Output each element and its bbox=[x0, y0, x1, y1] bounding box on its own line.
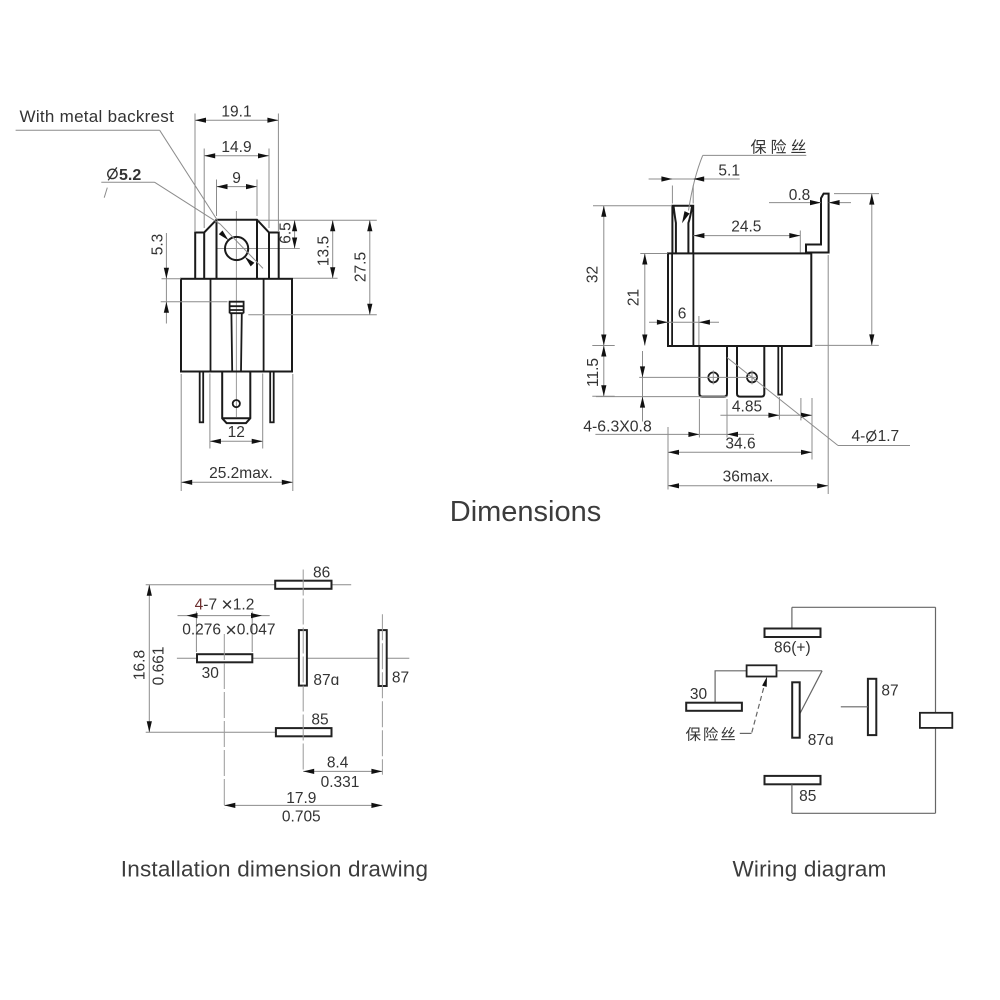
label 87a bbox=[313, 672, 339, 689]
svg-text:Wiring diagram: Wiring diagram bbox=[732, 857, 886, 882]
slot 86 bbox=[275, 581, 331, 589]
wire fuse to switch bbox=[777, 670, 823, 672]
dim 14.9 ext right bbox=[268, 149, 270, 229]
dim 6 text bbox=[678, 305, 687, 322]
svg-text:14.9: 14.9 bbox=[221, 139, 251, 156]
dim 36max line bbox=[668, 485, 828, 487]
body section line right bbox=[263, 279, 265, 372]
dim 34.6 text bbox=[725, 436, 755, 453]
label 4-dia1.7 bbox=[852, 428, 900, 445]
dim 4.85 ext b bbox=[800, 398, 802, 420]
dim 21 line bbox=[644, 254, 646, 346]
pin right view A bbox=[270, 372, 274, 423]
dim 34.6 ext left bbox=[667, 427, 669, 490]
dim 14.9 arrows bbox=[204, 153, 269, 158]
hole diameter arrow lower bbox=[245, 257, 255, 267]
wire bottom rail bbox=[792, 812, 936, 814]
dim 5.3 text bbox=[150, 234, 167, 256]
svg-text:0.8: 0.8 bbox=[789, 187, 811, 204]
metal bracket L-shape bbox=[806, 194, 829, 253]
svg-text:4-: 4- bbox=[852, 428, 866, 445]
dim 5.3 line bbox=[165, 233, 167, 324]
dim 21 text bbox=[626, 289, 643, 306]
fuse leader arrow bbox=[682, 211, 690, 223]
dim 16.8 arrows bbox=[147, 585, 152, 732]
dim 0.331 text bbox=[321, 774, 360, 791]
hole diameter pointer line bbox=[220, 224, 263, 268]
svg-text:30: 30 bbox=[202, 665, 220, 682]
dim 14.9 ext left bbox=[203, 149, 205, 229]
label 30 wiring bbox=[690, 686, 708, 703]
dim 34.6 arrows bbox=[668, 450, 812, 455]
dim 6.5 text bbox=[278, 222, 295, 244]
dim 0.661 text bbox=[151, 647, 168, 686]
dim 32 arrows bbox=[601, 206, 606, 346]
dim 4-6.3X0.8 ext left bbox=[698, 399, 700, 438]
dim 12 line bbox=[210, 440, 263, 442]
svg-text:Dimensions: Dimensions bbox=[450, 496, 602, 528]
dim 19.1 text bbox=[221, 104, 251, 121]
svg-text:0.705: 0.705 bbox=[282, 808, 321, 825]
hole diameter arrow upper bbox=[219, 231, 229, 241]
relay body outline B bbox=[668, 253, 811, 346]
dim overall right arrows bbox=[869, 194, 874, 346]
fuse leader line bbox=[689, 155, 703, 210]
dim 17.9 text bbox=[286, 790, 316, 807]
svg-text:0.331: 0.331 bbox=[321, 774, 360, 791]
svg-text:86: 86 bbox=[313, 565, 330, 582]
title Dimensions bbox=[450, 496, 602, 528]
dim hole-tip line bbox=[642, 351, 644, 422]
body B section line 2 bbox=[692, 253, 694, 346]
bracket mounting hole bbox=[225, 237, 248, 260]
svg-text:5.1: 5.1 bbox=[718, 163, 740, 180]
svg-text:87ɑ: 87ɑ bbox=[808, 732, 834, 749]
svg-text:36max.: 36max. bbox=[723, 469, 774, 486]
dim 6.5 line bbox=[294, 220, 296, 248]
dim 19.1 arrows bbox=[195, 118, 278, 123]
mount pin 1 bbox=[699, 346, 727, 397]
dim 25.2 ext right bbox=[292, 374, 294, 491]
dim 8.4 text bbox=[327, 755, 349, 772]
centerline horizontal through hole bbox=[217, 248, 300, 250]
svg-text:6: 6 bbox=[678, 305, 687, 322]
column centerline A bbox=[302, 570, 304, 773]
dim 4.85 text bbox=[732, 399, 762, 416]
dim 24.5 line bbox=[693, 235, 800, 237]
mount pin 2 hole cross v bbox=[751, 370, 753, 384]
dim 9 text bbox=[232, 170, 241, 187]
fuse leader arrow wiring bbox=[762, 677, 767, 687]
dim 6 ext right bbox=[698, 316, 700, 345]
svg-text:4.85: 4.85 bbox=[732, 399, 762, 416]
internal terminal tower bbox=[230, 302, 244, 372]
dim 13.5 arrows bbox=[330, 220, 335, 278]
dim 9 arrows bbox=[217, 184, 258, 189]
svg-text:11.5: 11.5 bbox=[585, 358, 602, 387]
leader dia 5.2 underline bbox=[101, 181, 154, 183]
dim 19.1 line bbox=[195, 119, 278, 121]
terminal 86(+) bbox=[765, 629, 821, 638]
dim 4-7 ext left bbox=[195, 612, 197, 653]
svg-text:17.9: 17.9 bbox=[286, 790, 316, 807]
thin pin B bbox=[778, 346, 782, 395]
dim 8.4 arrows bbox=[303, 769, 382, 774]
dim 0.705 text bbox=[282, 808, 321, 825]
label 85 bbox=[311, 712, 328, 729]
dim 9 line bbox=[217, 186, 258, 188]
dim 32 ref top bbox=[593, 205, 672, 207]
dim 17.9 line bbox=[224, 804, 382, 806]
ref line slot bottom right bbox=[248, 314, 376, 316]
terminal 30 wiring bbox=[686, 703, 742, 711]
wire top rail bbox=[792, 606, 936, 608]
mount pin 2 hole bbox=[747, 372, 757, 382]
svg-text:85: 85 bbox=[311, 712, 328, 729]
dim 11.5 text bbox=[585, 358, 602, 387]
svg-text:1.7: 1.7 bbox=[878, 428, 900, 445]
dim 0.8 line left bbox=[769, 202, 821, 204]
dim 25.2 arrows bbox=[181, 480, 293, 485]
svg-text:85: 85 bbox=[799, 788, 816, 805]
dim 0.8 line right bbox=[829, 202, 851, 204]
label 86 bbox=[313, 565, 330, 582]
row line 30 bbox=[177, 657, 409, 659]
dim 5.1 ext right bbox=[692, 186, 694, 204]
fuse tab outline bbox=[672, 206, 693, 254]
dim 36max ext right bbox=[827, 255, 829, 494]
dim 19.1 ext left bbox=[194, 114, 196, 232]
pin left view A bbox=[200, 372, 204, 423]
dim 5.3 arrows bbox=[164, 268, 169, 313]
mount pin 1 hole cross v bbox=[712, 370, 714, 384]
terminal 85 wiring bbox=[765, 776, 821, 784]
pin bottom reference line bbox=[596, 396, 728, 398]
dim 27.5 text bbox=[353, 252, 370, 282]
svg-text:0.276 ×0.047: 0.276 ×0.047 bbox=[182, 619, 275, 641]
relay body outline A bbox=[181, 279, 292, 372]
dim 4-7 line bbox=[178, 615, 270, 617]
center pin hole bbox=[233, 400, 240, 407]
metal backrest bracket outline bbox=[195, 220, 279, 279]
terminal 87 wiring bbox=[868, 679, 876, 735]
mount pin 1 hole bbox=[708, 372, 718, 382]
row line 85 bbox=[146, 731, 276, 733]
dim 4-6.3X0.8 ext right bbox=[726, 399, 728, 438]
svg-text:16.8: 16.8 bbox=[131, 650, 148, 680]
ref line bracket top right B bbox=[834, 193, 879, 195]
dim 24.5 arrows bbox=[693, 233, 800, 238]
label 87 install bbox=[392, 669, 409, 686]
leader backrest underline bbox=[16, 129, 160, 131]
fuse leader dashed line bbox=[752, 683, 765, 733]
dim 34.6 ext right bbox=[811, 398, 813, 460]
leader 4-dia1.7 line bbox=[727, 358, 838, 446]
leader dia 5.2 diagonal bbox=[155, 182, 221, 224]
row line 86 bbox=[146, 584, 352, 586]
label 87 wiring bbox=[881, 683, 898, 700]
dim 9 ext left bbox=[216, 180, 218, 217]
dim 12 ext right bbox=[262, 374, 264, 449]
svg-text:86(+): 86(+) bbox=[774, 640, 811, 657]
dim 32 text bbox=[585, 266, 602, 283]
stray tick bbox=[104, 188, 107, 198]
dim 0.8 arrows bbox=[810, 200, 840, 205]
svg-text:87: 87 bbox=[392, 669, 409, 686]
dim 4-6.3X0.8 text bbox=[583, 419, 652, 436]
dim 5.1 arrows bbox=[661, 176, 704, 181]
dim 8.4 line bbox=[303, 770, 382, 772]
wire right rail bbox=[935, 607, 937, 813]
leader 4-dia1.7 underline bbox=[838, 445, 910, 447]
hole reference line bbox=[639, 376, 757, 378]
wire 85 connector bbox=[791, 784, 793, 813]
dim 24.5 text bbox=[731, 219, 761, 236]
dim 14.9 line bbox=[204, 155, 269, 157]
dim overall right line bbox=[871, 194, 873, 346]
dim 12 ext left bbox=[209, 374, 211, 449]
svg-text:4-7 ×1.2: 4-7 ×1.2 bbox=[195, 594, 255, 616]
dim 6.5 arrows bbox=[292, 220, 297, 248]
dim 4-7 ext right bbox=[251, 612, 253, 653]
dim 5.3 ref upper bbox=[162, 278, 182, 280]
dim 27.5 line bbox=[369, 220, 371, 315]
dim 16.8 line bbox=[148, 585, 150, 732]
dim 25.2 line bbox=[181, 481, 293, 483]
dim 14.9 text bbox=[221, 139, 251, 156]
svg-text:25.2max.: 25.2max. bbox=[209, 465, 273, 482]
svg-text:13.5: 13.5 bbox=[316, 236, 333, 266]
label 85 wiring bbox=[799, 788, 816, 805]
wire 86 connector bbox=[791, 607, 793, 628]
svg-text:19.1: 19.1 bbox=[221, 104, 251, 121]
svg-text:4-6.3X0.8: 4-6.3X0.8 bbox=[583, 419, 652, 436]
slot 87 bbox=[379, 630, 387, 686]
dim 17.9 arrows bbox=[224, 803, 382, 808]
label fuse cjk top bbox=[751, 139, 806, 154]
label fuse cjk wiring bbox=[686, 727, 735, 741]
svg-text:9: 9 bbox=[232, 170, 241, 187]
fuse box bbox=[747, 665, 777, 676]
svg-text:27.5: 27.5 bbox=[353, 252, 370, 282]
caption wiring bbox=[732, 857, 886, 882]
leader backrest diagonal bbox=[160, 130, 218, 220]
dim 4.85 line bbox=[720, 414, 812, 416]
caption installation bbox=[121, 857, 428, 882]
label 4-7x1.2 bbox=[195, 594, 255, 616]
svg-text:30: 30 bbox=[690, 686, 708, 703]
svg-text:8.4: 8.4 bbox=[327, 755, 349, 772]
body section line left bbox=[210, 279, 212, 372]
center blade pin bbox=[222, 372, 250, 424]
svg-text:21: 21 bbox=[626, 289, 643, 306]
dim 5.1 text bbox=[718, 163, 740, 180]
dim 25.2 text bbox=[209, 465, 273, 482]
dim 11.5 arrows bbox=[601, 346, 606, 397]
svg-text:With metal backrest: With metal backrest bbox=[20, 107, 175, 126]
dim 32 line bbox=[603, 206, 605, 346]
dim 6 arrows bbox=[657, 320, 710, 325]
dim 5.1 ext left bbox=[671, 186, 673, 204]
slot 30 bbox=[197, 654, 252, 662]
dim 5.3 ref lower bbox=[161, 301, 228, 303]
dim hole-tip arrows bbox=[640, 366, 645, 407]
body B section line 1 bbox=[671, 253, 673, 346]
fuse leader dash bbox=[740, 732, 752, 734]
dim 12 arrows bbox=[210, 439, 263, 444]
centerline vertical view A bbox=[235, 211, 237, 417]
dim 13.5 text bbox=[316, 236, 333, 266]
ref line body bottom right B bbox=[815, 344, 879, 346]
dim 6 line bbox=[649, 321, 719, 323]
dim 34.6 line bbox=[668, 451, 812, 453]
dim 36max text bbox=[723, 469, 774, 486]
slot 87a bbox=[299, 630, 307, 686]
dim 0.8 text bbox=[789, 187, 811, 204]
svg-text:32: 32 bbox=[585, 266, 602, 283]
svg-text:0.661: 0.661 bbox=[151, 647, 168, 686]
dim 24.5 ext right bbox=[799, 231, 801, 253]
dim 11.5 ref bottom bbox=[592, 395, 614, 397]
ref line body top right bbox=[293, 277, 338, 279]
dim 13.5 line bbox=[332, 220, 334, 278]
fuse label underline bbox=[703, 154, 807, 156]
dim 4-6.3X0.8 arrows bbox=[688, 432, 738, 437]
ref line bracket top right bbox=[259, 219, 377, 221]
svg-text:5.3: 5.3 bbox=[150, 234, 167, 256]
dim 36max arrows bbox=[668, 483, 828, 488]
svg-text:12: 12 bbox=[228, 424, 245, 441]
svg-text:87ɑ: 87ɑ bbox=[313, 672, 339, 689]
dim 4.85 ext a bbox=[778, 397, 780, 420]
label 87a wiring bbox=[808, 732, 834, 749]
svg-text:5.2: 5.2 bbox=[119, 167, 141, 184]
label 86(+) bbox=[774, 640, 811, 657]
wire 30 connector bbox=[715, 671, 747, 703]
svg-text:Installation dimension drawing: Installation dimension drawing bbox=[121, 857, 428, 882]
slot 85 bbox=[276, 728, 332, 736]
dim 27.5 arrows bbox=[367, 220, 372, 315]
dim 21 ref top bbox=[640, 253, 667, 255]
dim 4-7 arrows bbox=[187, 613, 263, 618]
dim 4.85 arrows bbox=[768, 413, 812, 418]
dim 11.5 line bbox=[603, 346, 605, 397]
label 0.276x0.047 bbox=[182, 619, 275, 641]
dim 21 arrows bbox=[642, 254, 647, 346]
label dia 5.2 bbox=[108, 167, 142, 184]
switch arm bbox=[800, 671, 822, 714]
mount pin 2 bbox=[737, 346, 764, 397]
dim 16.8 text bbox=[131, 650, 148, 680]
dim 9 ext right bbox=[256, 180, 258, 217]
dim 32 ref bottom bbox=[592, 345, 614, 347]
dim 5.1 line bbox=[649, 178, 740, 180]
column centerline 30 bbox=[223, 634, 225, 808]
svg-text:87: 87 bbox=[881, 683, 898, 700]
svg-text:34.6: 34.6 bbox=[725, 436, 755, 453]
column centerline 87 bbox=[381, 614, 383, 775]
dim 4-6.3X0.8 line bbox=[595, 433, 754, 435]
dim 19.1 ext right bbox=[277, 114, 279, 232]
label with metal backrest bbox=[20, 107, 175, 126]
dim 25.2 ext left bbox=[180, 374, 182, 491]
svg-text:24.5: 24.5 bbox=[731, 219, 761, 236]
wire 87 stub bbox=[841, 706, 868, 708]
relay coil bbox=[920, 713, 952, 728]
label 30 bbox=[202, 665, 220, 682]
dim 12 text bbox=[228, 424, 245, 441]
svg-text:6.5: 6.5 bbox=[278, 222, 295, 244]
terminal 87a wiring bbox=[792, 682, 800, 737]
